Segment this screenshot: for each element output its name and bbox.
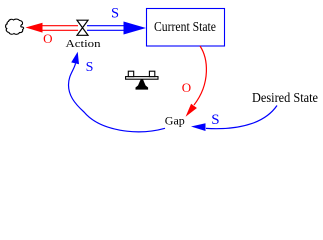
- flow pipe (red) from valve to cloud: upper line: [42, 25, 78, 27]
- svg-text:Desired State: Desired State: [252, 91, 318, 106]
- balance fulcrum triangle: [136, 79, 149, 89]
- svg-text:O: O: [43, 31, 52, 46]
- flow pipe (blue) from valve to Current State: upper line: [87, 25, 125, 27]
- stock box Current State: [147, 9, 225, 47]
- svg-text:S: S: [211, 112, 219, 128]
- red causal curve from Current State to Gap: [194, 46, 206, 105]
- blue arrowhead pointing up at Action: [71, 52, 79, 64]
- red flow arrowhead pointing left at cloud: [26, 23, 43, 33]
- balance scale left weight: [128, 71, 133, 76]
- red arrowhead pointing down-left at Gap: [186, 104, 197, 117]
- svg-text:S: S: [86, 60, 94, 75]
- svg-text:Gap: Gap: [165, 113, 185, 127]
- svg-text:Current State: Current State: [154, 20, 216, 35]
- balance scale right weight: [149, 71, 154, 76]
- blue arrowhead pointing left at Gap: [191, 123, 206, 131]
- flow pipe (blue) lower line: [87, 29, 125, 31]
- valve (flow regulator): [77, 20, 88, 35]
- cloud (source/sink): [6, 19, 24, 34]
- balance scale bar: [126, 77, 158, 80]
- svg-text:Action: Action: [66, 39, 102, 50]
- svg-text:O: O: [182, 80, 191, 95]
- flow pipe (red) lower line: [42, 29, 78, 31]
- blue causal curve from Desired State to Gap: [206, 106, 277, 129]
- big blue arc from Gap to Action: [69, 64, 166, 132]
- svg-text:S: S: [111, 5, 119, 21]
- blue flow arrowhead pointing right into box: [124, 22, 147, 35]
